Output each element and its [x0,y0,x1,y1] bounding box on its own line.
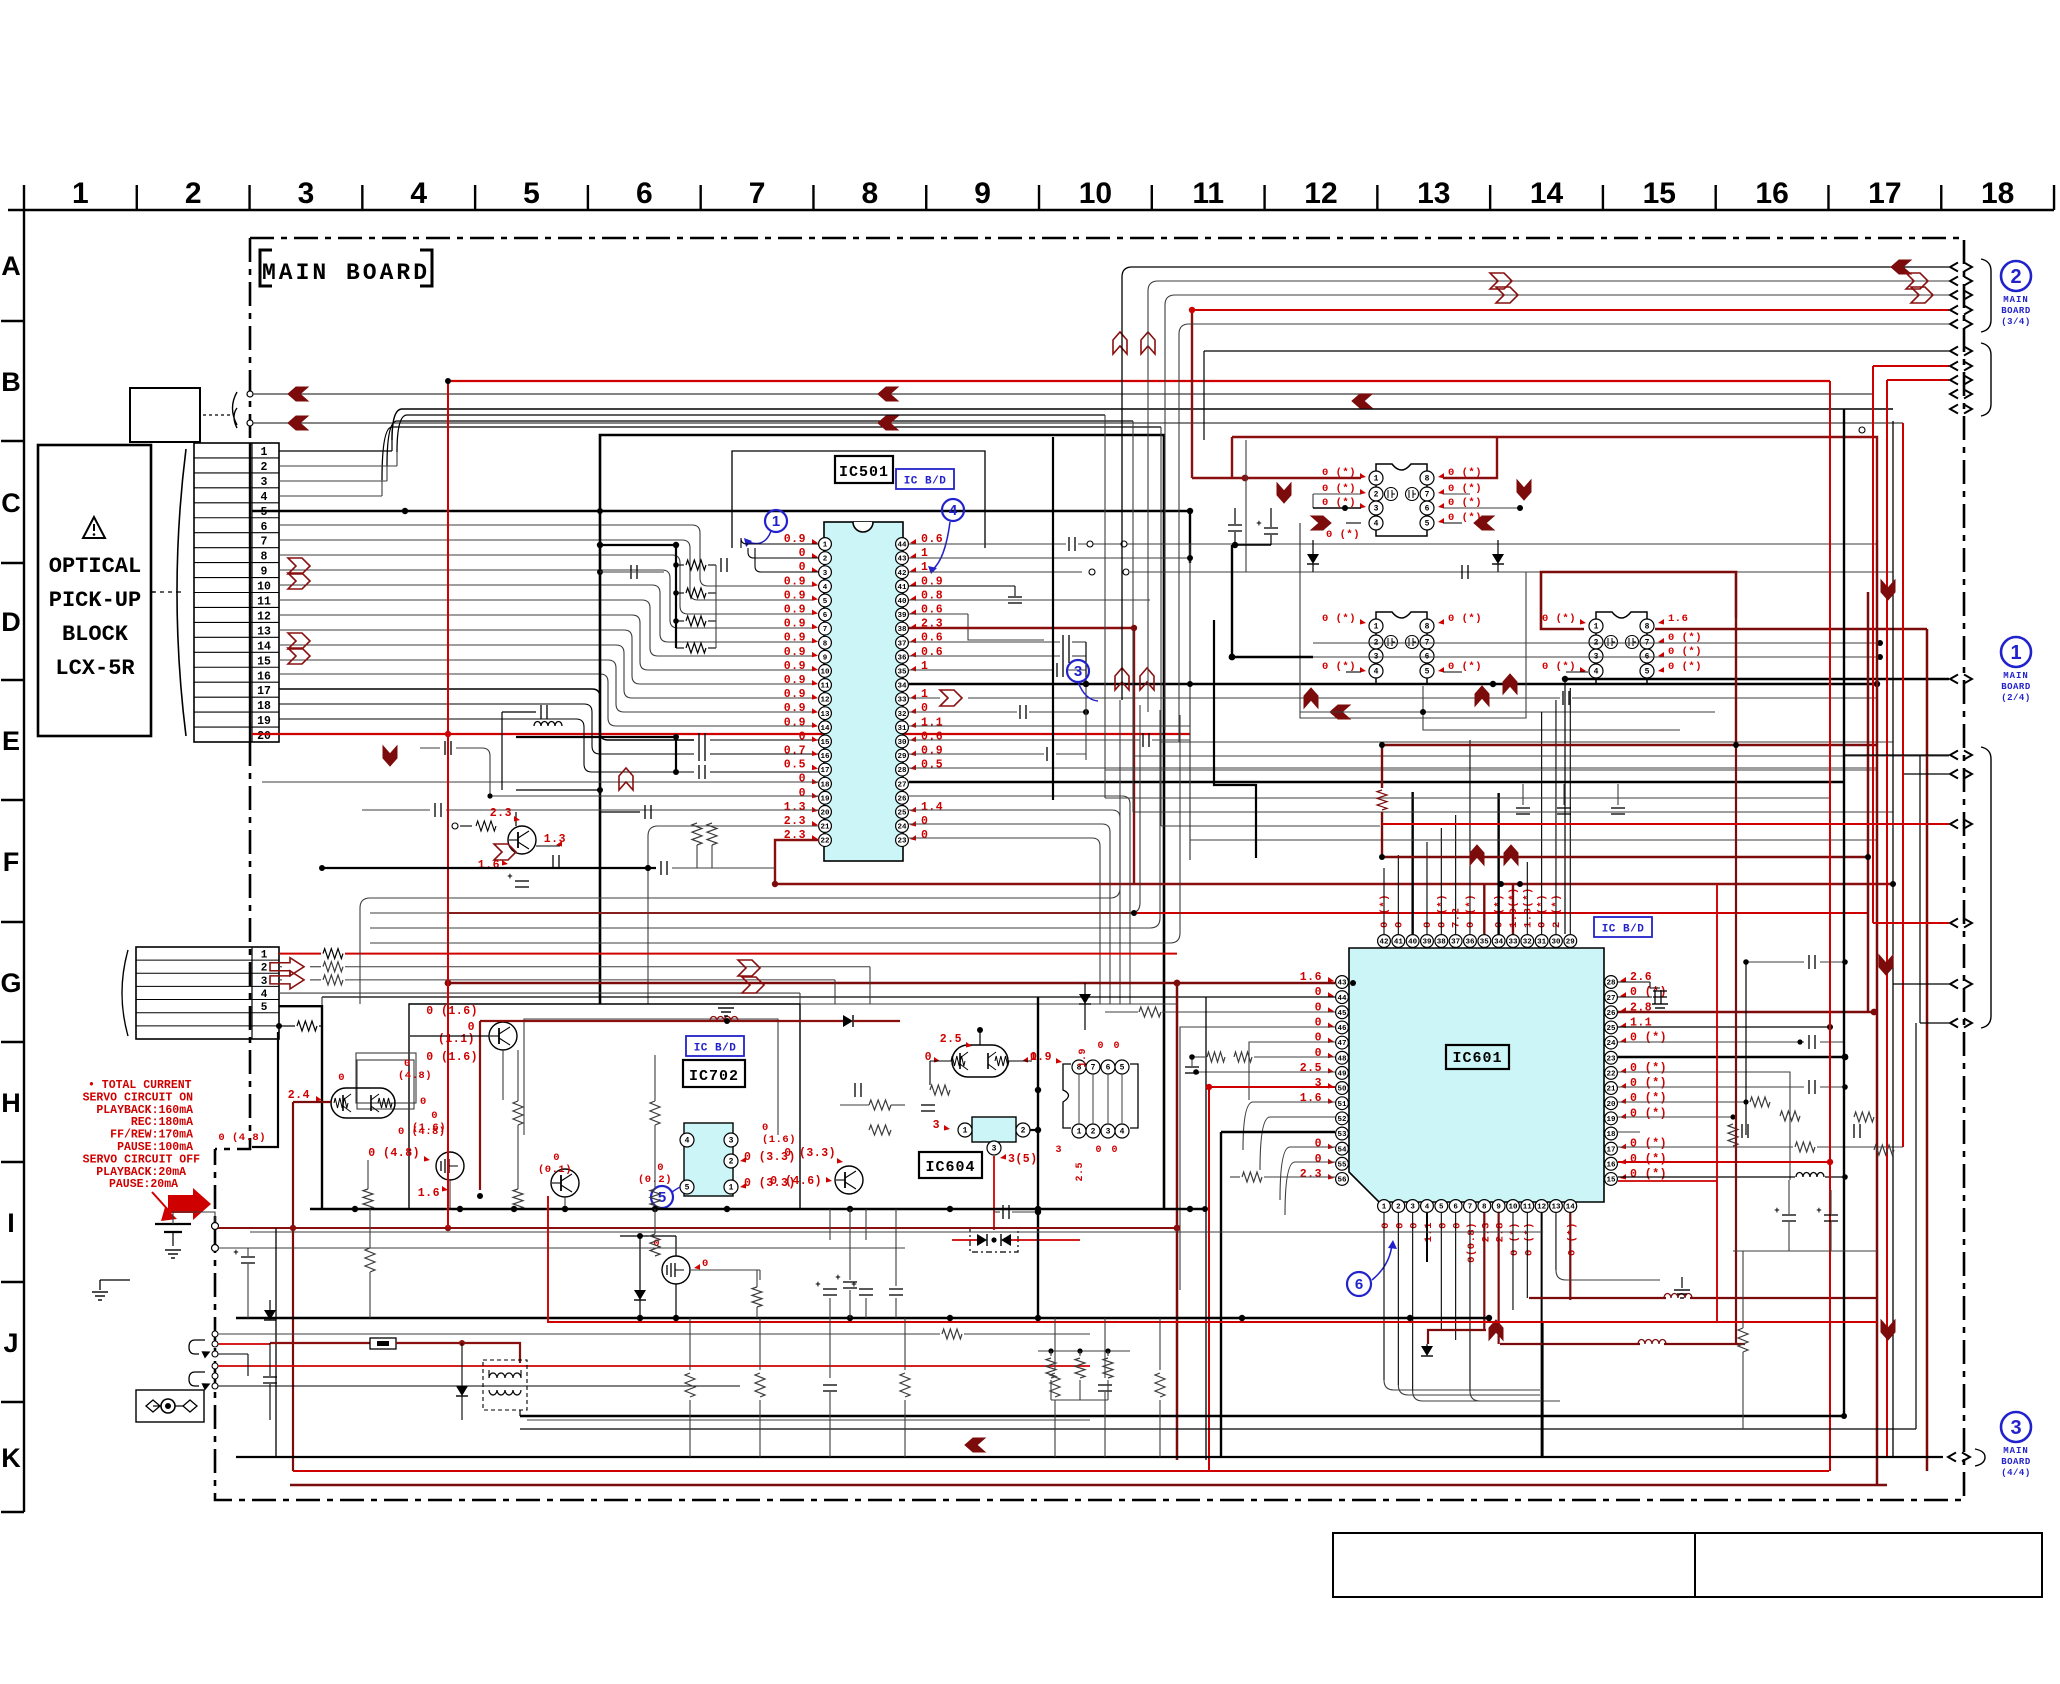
svg-text:4: 4 [261,491,268,504]
svg-text:4: 4 [261,989,268,1001]
svg-text:16: 16 [1606,1161,1616,1169]
edge connector 3 [1948,1453,1956,1462]
svg-text:3: 3 [1374,505,1379,514]
wire dashed link [151,591,181,593]
svg-text:(3/4): (3/4) [2001,317,2031,327]
callout 5 [651,1186,673,1208]
svg-text:10: 10 [1079,177,1112,210]
svg-text:0 (*): 0 (*) [1448,661,1482,673]
svg-text:45: 45 [1337,1010,1347,1018]
svg-text:9: 9 [1496,1204,1501,1212]
wire texture upper mid [322,867,656,869]
svg-text:FF/REW:170mA: FF/REW:170mA [110,1129,193,1142]
IC501 label [835,456,893,483]
svg-text:5: 5 [685,1184,690,1193]
svg-text:IC501: IC501 [839,464,889,481]
svg-text:18: 18 [1606,1131,1616,1139]
svg-text:3: 3 [823,570,828,578]
svg-text:1.9: 1.9 [1078,1048,1089,1068]
svg-text:11: 11 [820,683,830,691]
svg-text:8: 8 [261,551,268,564]
svg-text:20: 20 [820,810,830,818]
svg-text:REC:180mA: REC:180mA [131,1116,193,1129]
svg-text:0: 0 [921,815,928,828]
svg-text:PLAYBACK:160mA: PLAYBACK:160mA [96,1104,193,1117]
svg-text:55: 55 [1337,1161,1347,1169]
svg-text:22: 22 [820,838,830,846]
svg-text:40: 40 [1408,939,1418,947]
wire right column verticals [1716,884,1718,1322]
svg-text:4: 4 [1374,520,1379,529]
svg-text:0: 0 [553,1152,560,1164]
svg-text:(4.8): (4.8) [398,1070,432,1082]
svg-text:31: 31 [897,725,907,733]
svg-text:0.9: 0.9 [784,646,806,659]
edge connector group 2 (3/4) [1950,263,1958,272]
wire left resistor ladder [600,544,676,546]
svg-text:IC702: IC702 [689,1068,739,1085]
svg-text:0: 0 [925,1051,932,1064]
svg-text:25: 25 [1606,1025,1616,1033]
svg-text:44: 44 [1337,995,1347,1003]
svg-text:18: 18 [1981,177,2014,210]
arrow below connector [383,746,397,766]
border ruler top [8,209,2054,211]
svg-text:16: 16 [1755,177,1788,210]
svg-text:15: 15 [257,655,271,668]
callout 4 [942,499,964,521]
IC601 body [1349,948,1604,1202]
svg-text:13: 13 [1417,177,1450,210]
svg-text:8: 8 [1482,1204,1487,1212]
svg-text:2: 2 [1091,1128,1096,1137]
svg-text:4: 4 [823,584,828,592]
capacitor C bottom1 [263,1376,277,1378]
svg-text:26: 26 [897,795,907,803]
svg-text:49: 49 [1337,1071,1347,1079]
svg-text:3: 3 [933,1119,940,1132]
svg-text:0 (1.6): 0 (1.6) [426,1051,478,1064]
IC501 inner frame [732,451,985,548]
svg-text:+: + [835,1273,840,1283]
svg-text:J: J [3,1328,18,1358]
svg-text:0.6: 0.6 [921,730,943,743]
svg-text:4: 4 [1425,1204,1430,1212]
caps under bus [1522,784,1524,805]
svg-text:0.9: 0.9 [784,604,806,617]
svg-text:2: 2 [185,177,202,210]
svg-text:IC B/D: IC B/D [1602,924,1645,936]
mid passive row [829,1209,831,1240]
IC604 label [919,1152,982,1178]
capacitor C-left pair [1228,524,1242,526]
svg-text:(1.6): (1.6) [412,1122,446,1134]
svg-text:0 (*): 0 (*) [1448,483,1482,495]
svg-text:SERVO CIRCUIT ON: SERVO CIRCUIT ON [83,1091,194,1104]
svg-text:14: 14 [257,640,271,653]
svg-text:5: 5 [823,598,828,606]
svg-text:30: 30 [1551,939,1561,947]
IC702 inner frame [524,1019,778,1135]
svg-text:0.5: 0.5 [921,759,943,772]
transformer T601 [483,1360,527,1410]
wire IC501 pins31-23 [909,725,1190,727]
main board 3/4 label [2001,261,2031,327]
svg-text:0 (*): 0 (*) [1542,613,1576,625]
svg-text:20: 20 [1606,1101,1616,1109]
svg-text:2: 2 [261,461,268,474]
svg-text:2: 2 [1396,1204,1401,1212]
transistor Q501 [508,826,536,854]
connector CN (5p) [136,947,279,1039]
svg-text:4: 4 [1594,668,1599,677]
svg-text:0.9: 0.9 [784,674,806,687]
svg-text:SERVO CIRCUIT OFF: SERVO CIRCUIT OFF [83,1153,200,1166]
svg-text:32: 32 [1523,939,1533,947]
svg-text:2: 2 [1374,491,1379,500]
svg-text:8: 8 [1425,623,1430,632]
svg-text:0: 0 [1111,1145,1118,1156]
svg-text:1: 1 [2010,642,2021,664]
svg-text:0: 0 [1113,1041,1120,1052]
callout 1 [765,510,787,532]
diode D bottom [456,1386,468,1396]
svg-text:35: 35 [897,669,907,677]
ground right [1674,1289,1690,1291]
svg-text:+: + [1816,1206,1821,1216]
wire IC501 pin34 thick [909,683,1877,685]
svg-text:41: 41 [1394,939,1404,947]
svg-text:0.9: 0.9 [784,589,806,602]
svg-text:8: 8 [862,177,879,210]
wire EF horizontal bundle [1161,741,1893,743]
wire IC501 column verticals [1189,544,1191,860]
svg-text:11: 11 [257,596,271,609]
IC604 passives [930,1085,950,1095]
svg-text:6: 6 [1425,505,1430,514]
transistor Q703 [489,1022,517,1050]
diode D605 [1079,994,1091,1004]
svg-text:3: 3 [261,976,268,988]
svg-text:H: H [1,1088,21,1118]
svg-text:12: 12 [1537,1204,1547,1212]
arrow pair U1 [1311,516,1331,530]
transistor Q706 [835,1166,863,1194]
svg-text:15: 15 [820,739,830,747]
svg-text:1: 1 [261,950,268,962]
svg-text:MAIN BOARD: MAIN BOARD [262,260,430,286]
svg-text:0 (*): 0 (*) [1537,894,1549,928]
svg-text:2.5: 2.5 [940,1033,962,1046]
svg-text:44: 44 [897,542,907,550]
svg-text:1: 1 [963,1127,968,1136]
arrow top right [1891,260,1911,274]
wire IC601 right nets [1618,981,1650,983]
svg-text:3: 3 [261,476,268,489]
wire U3 red ring [1541,572,1736,629]
wire U1 red feeds [1192,477,1361,479]
arrow bottom [965,1438,985,1452]
connector CN (to 3/4) [130,388,200,442]
svg-text:23: 23 [1606,1055,1616,1063]
svg-text:54: 54 [1337,1146,1347,1154]
svg-text:0.9: 0.9 [921,745,943,758]
IC702 misc passives [869,1100,891,1110]
callout 6 [1347,1272,1371,1296]
svg-text:C: C [1,488,21,518]
svg-text:39: 39 [897,612,907,620]
MOSFET Q707 below [662,1256,690,1284]
svg-text:OPTICAL: OPTICAL [49,554,141,579]
svg-text:10: 10 [1508,1204,1518,1212]
IC702 label [683,1060,745,1087]
svg-text:0.6: 0.6 [921,646,943,659]
svg-text:0: 0 [404,1058,411,1070]
svg-text:8: 8 [1425,475,1430,484]
wire red fuse line [264,1310,276,1320]
svg-text:42: 42 [897,570,907,578]
bus thin [250,1231,1543,1233]
svg-text:34: 34 [897,683,907,691]
svg-text:0: 0 [1380,1222,1392,1229]
wire rows17-19 [279,689,694,740]
power entry [136,1390,204,1422]
svg-text:4: 4 [949,502,958,519]
svg-text:14: 14 [1566,1204,1576,1212]
arrows G mid [738,960,760,976]
svg-text:46: 46 [1337,1025,1347,1033]
IC501 pins left [819,538,832,551]
wire U1 side nets [1313,493,1361,495]
svg-text:0: 0 [1315,1153,1322,1166]
wire IC501 pin33 [909,697,940,699]
svg-text:8: 8 [823,640,828,648]
svg-text:2.3: 2.3 [490,807,512,820]
title block [1333,1533,1695,1597]
svg-text:31: 31 [1537,939,1547,947]
svg-text:IC B/D: IC B/D [694,1043,737,1055]
svg-text:0.6: 0.6 [921,632,943,645]
svg-text:1: 1 [1382,1204,1387,1212]
wire bottom arcs [1384,1380,1540,1390]
svg-text:19: 19 [820,795,830,803]
wire IC601 top pins up [1383,868,1385,934]
svg-text:2.3: 2.3 [1300,1168,1322,1181]
wire red bottom nets [1428,1330,1486,1344]
wire group2 lines [1204,350,1949,352]
svg-text:1.1: 1.1 [921,716,943,729]
svg-text:0 (*): 0 (*) [1668,632,1702,644]
svg-text:3: 3 [1410,1204,1415,1212]
wire black B bus [392,409,1893,440]
svg-text:+: + [1774,1206,1779,1216]
svg-text:0: 0 [762,1122,769,1134]
optical pick-up block LCX-5R [38,445,151,736]
svg-text:27: 27 [1606,995,1615,1003]
svg-text:+: + [233,1248,238,1258]
right mid caps [1808,955,1810,969]
wire group1 top lines [1122,267,1949,700]
wire bottom K nets [527,1419,1090,1421]
border ruler left [23,210,25,1512]
svg-text:18: 18 [257,700,271,713]
bus thick I-row [310,1208,1205,1211]
IC601 pins right [1605,976,1618,989]
svg-text:0 (1.6): 0 (1.6) [426,1005,478,1018]
wire K risers [1915,1023,1917,1429]
svg-text:4: 4 [410,177,427,210]
IC703 body [684,1123,733,1196]
svg-text:IC B/D: IC B/D [904,476,947,488]
svg-text:0: 0 [1437,1222,1449,1229]
svg-text:1.9: 1.9 [1030,1051,1052,1064]
svg-text:2: 2 [729,1158,734,1167]
svg-text:0 (*): 0 (*) [1465,894,1477,928]
svg-text:2.4: 2.4 [288,1089,310,1102]
svg-text:40: 40 [897,598,907,606]
svg-text:26: 26 [1606,1010,1616,1018]
svg-text:6: 6 [1453,1204,1458,1212]
svg-text:3: 3 [2010,1417,2021,1439]
passives under J bus [1038,1350,1130,1352]
svg-text:38: 38 [897,626,907,634]
wire IC601 bottom pins [1383,1213,1385,1380]
svg-text:0 (4.8): 0 (4.8) [368,1147,420,1160]
svg-text:32: 32 [897,711,907,719]
transistor Q705 [551,1169,579,1197]
svg-text:4: 4 [1374,668,1379,677]
wire inductor net [516,736,676,738]
svg-text:30: 30 [897,739,907,747]
IC501 body [824,522,903,861]
IC501 sub-board outline [600,435,1164,1209]
svg-text:K: K [1,1443,21,1473]
svg-text:43: 43 [1337,980,1347,988]
svg-text:5: 5 [261,506,268,519]
svg-text:0 (*): 0 (*) [1322,483,1356,495]
svg-text:BOARD: BOARD [2001,1457,2031,1467]
svg-text:16: 16 [257,670,271,683]
svg-text:0 (*): 0 (*) [1523,1222,1535,1256]
svg-text:0(0.8): 0(0.8) [1466,1222,1478,1263]
svg-text:0 (3.3): 0 (3.3) [784,1147,836,1160]
svg-text:0: 0 [1095,1145,1102,1156]
svg-text:LCX-5R: LCX-5R [55,656,135,681]
svg-text:0: 0 [657,1162,664,1174]
svg-text:52: 52 [1337,1116,1347,1124]
svg-text:16: 16 [820,753,830,761]
main board 4/4 label [2001,1412,2031,1478]
svg-text:20: 20 [257,730,271,743]
svg-text:15: 15 [1606,1177,1616,1185]
svg-text:1.6: 1.6 [1300,1092,1322,1105]
svg-text:0 (*): 0 (*) [1630,1032,1667,1045]
svg-text:39: 39 [1422,939,1432,947]
svg-text:5: 5 [523,177,540,210]
svg-text:0 (*): 0 (*) [1566,1222,1578,1256]
battery symbol [155,1223,191,1225]
svg-text:1.3: 1.3 [544,833,566,846]
svg-text:0 (*): 0 (*) [1322,497,1356,509]
svg-text:33: 33 [1508,939,1518,947]
svg-text:0.9: 0.9 [784,716,806,729]
svg-text:0 (*): 0 (*) [1630,1077,1667,1090]
svg-text:0: 0 [431,1110,438,1122]
svg-text:1.6: 1.6 [418,1187,440,1200]
svg-text:10: 10 [257,581,271,594]
wire black F path [1214,620,1256,858]
arrow up pair C [1113,332,1127,354]
IC B/D label 702 [686,1036,744,1056]
svg-text:BLOCK: BLOCK [62,622,129,647]
svg-text:17: 17 [1868,177,1901,210]
svg-text:0 (*): 0 (*) [1322,613,1356,625]
svg-text:BOARD: BOARD [2001,306,2031,316]
svg-text:I: I [7,1208,15,1238]
svg-text:1.6: 1.6 [1668,613,1688,625]
svg-text:10: 10 [820,669,830,677]
svg-text:0 (*): 0 (*) [1448,613,1482,625]
svg-text:7: 7 [1091,1064,1096,1073]
svg-text:0 (*): 0 (*) [1542,661,1576,673]
svg-text:6: 6 [823,612,828,620]
wire red J net [548,1196,1877,1322]
svg-text:1: 1 [1594,623,1599,632]
wire row1-4 connector stubs [279,450,392,452]
svg-text:0: 0 [799,730,806,743]
ground J [92,1291,108,1293]
capacitor C-mid [1313,571,1459,573]
svg-text:3: 3 [729,1137,734,1146]
svg-text:0: 0 [1393,921,1405,928]
svg-text:0: 0 [1315,1138,1322,1151]
svg-text:41: 41 [897,584,907,592]
svg-text:13: 13 [1551,1204,1561,1212]
svg-text:29: 29 [1566,939,1576,947]
svg-text:19: 19 [1606,1116,1616,1124]
svg-text:11: 11 [1192,177,1224,210]
wire IC501 pin1-3 stubs [741,538,819,548]
svg-text:1: 1 [772,513,780,530]
svg-text:1: 1 [921,660,928,673]
svg-text:E: E [2,726,20,756]
wire row20 red net [252,733,1190,735]
svg-text:0 (*): 0 (*) [1448,497,1482,509]
svg-text:17: 17 [257,685,271,698]
arrows above IC601 [1470,845,1484,865]
svg-text:0: 0 [1315,1032,1322,1045]
wire red supply bus [448,380,1830,382]
svg-text:0.5: 0.5 [784,759,806,772]
svg-text:17: 17 [1606,1146,1615,1154]
svg-text:5: 5 [261,1002,268,1014]
svg-text:8: 8 [1645,623,1650,632]
svg-text:1: 1 [729,1184,734,1193]
svg-text:24: 24 [1606,1040,1616,1048]
svg-text:13: 13 [257,625,271,638]
svg-text:6: 6 [1355,1276,1363,1293]
wire IC501 right fan [909,543,1066,545]
svg-text:9: 9 [823,654,828,662]
wire red H-row [218,1227,1177,1229]
svg-text:3: 3 [992,1145,997,1154]
MAIN BOARD title [260,250,272,286]
svg-text:IC601: IC601 [1452,1050,1502,1067]
wire IC604 pin3 red [993,1156,995,1230]
wire left long verticals [1208,1087,1210,1471]
svg-text:BOARD: BOARD [2001,682,2031,692]
svg-text:0 (*): 0 (*) [1668,646,1702,658]
